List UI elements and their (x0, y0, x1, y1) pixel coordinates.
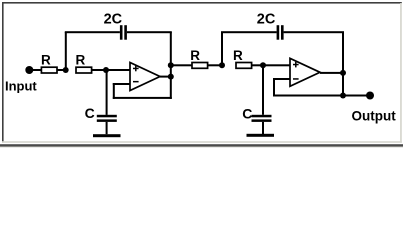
capacitor C1 (2C) plates (120, 25, 127, 40)
wire C2 to ground (106, 122, 108, 134)
op-amp U2 (290, 58, 320, 86)
wire R2 to node B1 (92, 69, 106, 71)
wire R4 to node B2 (252, 64, 263, 66)
U1 minus input marking (133, 81, 139, 83)
wire R1 to node A1 (57, 69, 66, 71)
resistor R2 (76, 67, 92, 73)
wire node B1 to op-amp U1 + input (106, 69, 130, 71)
svg-text:R: R (76, 53, 86, 68)
capacitor C3 (2C) plates (277, 25, 284, 40)
wire node A2 up to 2C rail (221, 32, 223, 65)
op-amp U1 (130, 63, 160, 91)
svg-text:Input: Input (5, 79, 37, 94)
wire feedback down (stage 2) (273, 78, 275, 97)
wire U1 minus input feedback left (113, 83, 130, 85)
wire feedback down (113, 83, 115, 99)
node A1 junction (63, 67, 69, 73)
capacitor C2 stem from node B1 (106, 70, 108, 115)
ground bar (stage 1) (93, 134, 121, 137)
wire 2C top rail right segment (127, 31, 172, 33)
U1 plus input marking (133, 66, 139, 72)
wire U1 output to rail (160, 76, 171, 78)
wire feedback bottom (113, 97, 172, 99)
capacitor C4 plates (252, 115, 272, 122)
resistor R3 (192, 63, 208, 69)
wire 2C top rail right segment (stage 2) (284, 31, 344, 33)
input terminal (25, 66, 33, 74)
wire U2 minus input feedback left (273, 78, 290, 80)
wire C4 to ground (262, 122, 264, 134)
ground bar (stage 2) (247, 134, 275, 137)
svg-text:2C: 2C (104, 12, 123, 28)
node B1 junction (103, 67, 109, 73)
output terminal (366, 92, 374, 100)
capacitor C4 stem from node B2 (262, 65, 264, 115)
node stage-2 tap junction (168, 62, 174, 68)
svg-text:R: R (233, 48, 243, 63)
capacitor C2 plates (97, 115, 117, 122)
node U1 output junction (168, 74, 174, 80)
node U2 output junction (340, 70, 346, 76)
resistor R4 (236, 63, 252, 69)
wire feedback bottom to output (273, 95, 367, 97)
wire node B2 to op-amp U2 + input (263, 64, 290, 66)
wire 2C top rail left segment (stage 2) (221, 31, 277, 33)
wire R3 to node A2 (208, 64, 222, 66)
svg-text:Output: Output (352, 108, 397, 123)
node A2 junction (219, 62, 225, 68)
svg-text:C: C (242, 106, 252, 122)
svg-text:2C: 2C (257, 12, 276, 28)
wire U2 output to rail (320, 72, 343, 74)
wire node A1 up to 2C rail (65, 32, 67, 70)
U2 minus input marking (293, 78, 299, 80)
wire output rail stage 2 (342, 32, 344, 97)
svg-text:R: R (190, 48, 200, 63)
svg-text:C: C (85, 105, 95, 121)
wire input to R1 (33, 69, 41, 71)
wire stage1 to R3 (171, 64, 192, 66)
resistor R1 (41, 67, 57, 73)
node B2 junction (260, 62, 266, 68)
node output line junction (340, 93, 346, 99)
wire 2C top rail left segment (65, 31, 120, 33)
svg-text:R: R (41, 53, 51, 68)
U2 plus input marking (293, 62, 299, 68)
wire output rail stage 1 (170, 32, 172, 99)
